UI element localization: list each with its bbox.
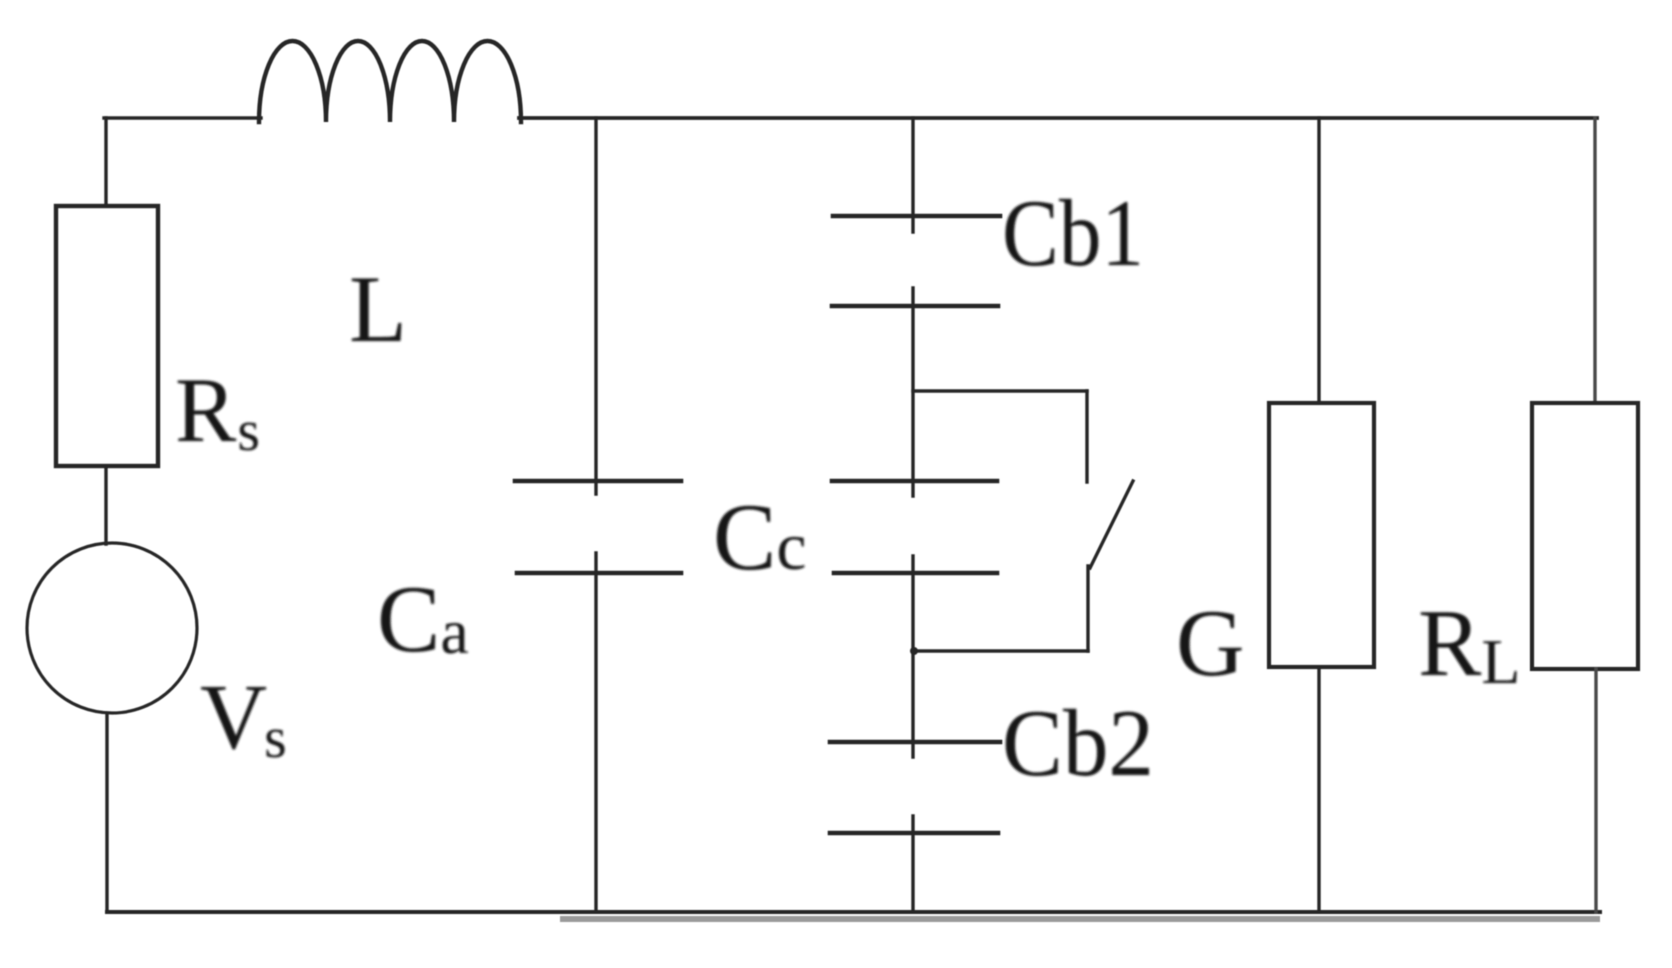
- wire G branch lower: [1317, 667, 1320, 912]
- wire Cc to Cb2: [911, 556, 914, 757]
- resistor RL: [1532, 403, 1638, 669]
- inductor L: [259, 41, 521, 122]
- wire left vertical upper: [104, 118, 107, 206]
- wire Ca branch upper: [594, 118, 597, 494]
- resistor Rs: [56, 206, 158, 466]
- wire switch bottom horizontal: [913, 649, 1088, 652]
- svg-text:L: L: [349, 256, 407, 362]
- capacitor Ca: [515, 481, 681, 573]
- wire switch bottom contact: [1086, 566, 1089, 651]
- wire top bus: [519, 116, 1597, 120]
- capacitor Cb1: [832, 216, 1000, 306]
- wire RL branch upper: [1593, 118, 1596, 403]
- wire bottom bus: [107, 910, 1600, 914]
- capacitor Cb2: [830, 742, 1000, 833]
- wire top-left horizontal: [104, 116, 261, 119]
- capacitor Cc: [832, 481, 997, 573]
- svg-text:Cb1: Cb1: [1002, 180, 1144, 286]
- wire Cb2 to bottom bus: [911, 816, 914, 912]
- wire Ca branch lower: [594, 553, 597, 912]
- wire RL branch lower: [1594, 669, 1597, 912]
- wire mid branch to Cb1: [911, 118, 914, 232]
- junction switch-bottom to mid branch: [910, 647, 918, 655]
- wire switch top contact: [1085, 391, 1088, 482]
- switch blade: [1090, 481, 1133, 568]
- wire Rs to Vs: [104, 466, 107, 544]
- wire Vs to bottom: [105, 714, 108, 912]
- svg-text:Cb2: Cb2: [1002, 690, 1154, 796]
- source Vs: [27, 543, 197, 713]
- wire switch top horizontal: [913, 389, 1087, 392]
- svg-text:G: G: [1176, 590, 1245, 696]
- wire Cb1 to Cc: [911, 288, 914, 496]
- resistor G: [1269, 403, 1374, 667]
- wire G branch upper: [1317, 118, 1320, 403]
- bottom bus shadow: [560, 916, 1600, 922]
